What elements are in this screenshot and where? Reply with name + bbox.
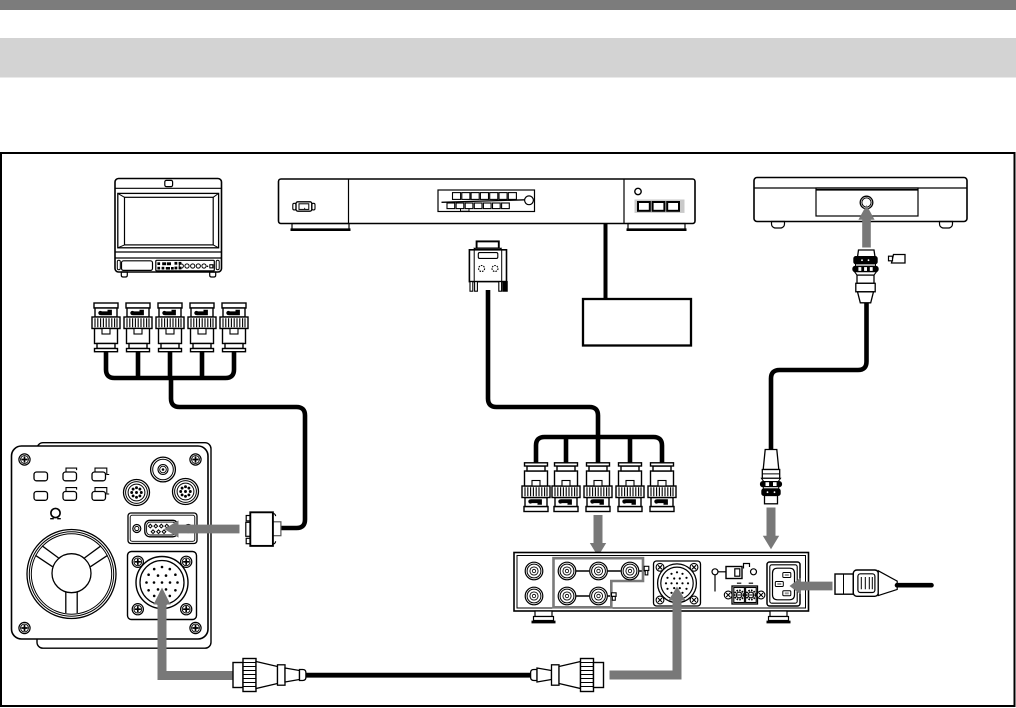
wire vcr to ccu <box>771 303 867 450</box>
foot right <box>628 224 685 230</box>
connector round right <box>173 479 199 505</box>
BNC plug A5 <box>220 303 248 352</box>
BNC plug A2 <box>124 303 152 352</box>
vcr cable plug upper <box>853 250 878 303</box>
BNC plug A1 <box>92 303 120 352</box>
ac inlet <box>767 562 800 606</box>
ac cord arrow <box>790 577 833 594</box>
remote d-sub port <box>128 513 197 544</box>
BNC jack left 1 <box>525 562 543 580</box>
wire d-sub trunk to BNC bus B <box>488 290 598 437</box>
wire BNC drop B2 <box>564 437 569 463</box>
BNC plug A4 <box>188 303 216 352</box>
dc terminal block <box>724 583 765 604</box>
diagram frame <box>1 153 1015 706</box>
ccu <box>514 553 809 623</box>
BNC plug B2 <box>552 463 580 512</box>
ground screw <box>712 569 718 575</box>
cassette slot <box>438 190 535 212</box>
corner screw TL <box>19 454 30 465</box>
plug icon small <box>889 255 906 264</box>
arrow vcr cable into ccu <box>767 508 776 537</box>
loop-through links <box>576 571 647 596</box>
connector round left <box>124 480 150 506</box>
BNC jack row1-3 <box>621 562 639 580</box>
ccu camera connector plate <box>654 561 701 606</box>
camera cable connector plate <box>128 552 197 620</box>
vcr cable arrow up <box>862 220 871 248</box>
camera body <box>12 446 209 639</box>
BNC plug B1 <box>522 463 550 512</box>
termination plug icon top <box>644 566 649 575</box>
wire BNC drop A2 <box>136 350 141 378</box>
ccu foot left <box>532 611 556 622</box>
wire trunk A to camera d-sub <box>171 378 305 528</box>
BNC plug B5 <box>648 463 676 512</box>
corner screw BL <box>19 622 30 633</box>
BNC jack left 2 <box>525 587 543 605</box>
vcr cable plug lower <box>760 450 781 504</box>
camera cable plug left <box>233 659 306 692</box>
ac cord cable <box>897 583 932 588</box>
ac cord plug <box>835 570 897 596</box>
BNC plug B3 <box>584 463 612 512</box>
vcr <box>754 178 967 229</box>
wire BNC drop B3 <box>596 437 601 463</box>
lamp icon <box>50 508 61 518</box>
fan <box>27 530 116 619</box>
monitor <box>115 179 222 278</box>
BNC plug A3 <box>156 303 184 352</box>
corner screw BR <box>190 622 201 633</box>
arrow into ccu cable connector with elbow <box>610 601 682 680</box>
camera back shell <box>37 443 211 649</box>
label box <box>583 299 691 346</box>
BNC jack row1-2 <box>590 562 608 580</box>
BNC jack row2-1 <box>558 587 576 605</box>
header bar dark <box>0 0 1016 10</box>
BNC plug B4 <box>616 463 644 512</box>
wire BNC drop A4 <box>200 350 205 378</box>
mode switch <box>726 567 742 579</box>
header bar light <box>0 38 1016 78</box>
group box gray <box>554 558 644 607</box>
button row 1 <box>34 472 106 481</box>
arrow into camera cable connector with elbow <box>158 605 234 681</box>
connector icon left <box>293 203 296 210</box>
foot left <box>292 224 349 230</box>
camera cable <box>306 673 532 678</box>
ccu foot right <box>767 611 791 622</box>
camera <box>12 443 212 649</box>
arrow into camera remote <box>164 520 239 537</box>
wire control unit to label box <box>604 224 608 300</box>
BNC jack row2-2 <box>590 587 608 605</box>
wire BNC bus B <box>536 437 662 463</box>
arrow BNC group B into ccu <box>594 515 603 544</box>
button icon flags <box>66 468 109 494</box>
wire BNC bus A <box>106 350 234 378</box>
camera cable plug right <box>531 659 604 692</box>
button row 2 <box>34 492 106 501</box>
lens connector <box>151 457 176 482</box>
control unit <box>279 179 696 230</box>
wire BNC drop B4 <box>628 437 633 463</box>
d-sub plug P1 side view <box>246 512 281 546</box>
indicator and buttons right <box>635 188 641 194</box>
termination plug icon bottom <box>612 593 617 600</box>
wire BNC drop A3 <box>168 350 173 378</box>
BNC jack row1-1 <box>558 562 576 580</box>
corner screw TR <box>190 454 201 465</box>
d-sub plug P2 <box>469 241 507 291</box>
